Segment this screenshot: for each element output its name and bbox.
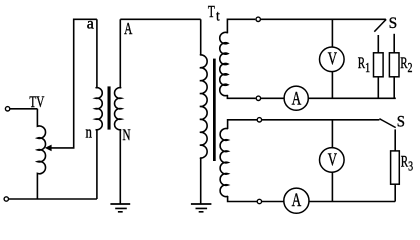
wire (bottom circuit bottom rail, ammeter to R3) [309,201,396,203]
transformer Tt secondary 2 bottom lead [228,196,258,202]
svg-text:N: N [123,126,131,143]
svg-text:S: S [397,113,405,130]
ammeter A (bottom circuit) [284,188,309,213]
resistor R2 [389,53,399,77]
ground (under N) [110,203,130,205]
transformer Tt secondary 1 coil [220,32,228,95]
resistor R1 [374,53,384,77]
wire (R1 bottom lead) [377,77,379,99]
transformer T winding A-N (right) top lead [119,19,121,88]
wire (bottom circuit top rail) [262,119,380,121]
voltmeter V (top circuit) [320,47,345,72]
voltmeter branch wire top (bottom circuit) [331,120,333,149]
transformer Tt secondary 1 bottom lead [227,95,255,98]
terminal (supply input, bottom-left) [4,197,8,201]
voltmeter V (bottom circuit) [320,148,345,173]
svg-text:V: V [328,151,337,170]
ground (under Tt primary) [191,203,212,205]
wire (top circuit top rail) [261,18,386,20]
wire (R2 top stub) [393,34,395,53]
transformer T winding a-n bottom lead [96,129,98,199]
voltmeter branch wire top (top circuit) [331,19,333,47]
wire (R1 top stub) [377,35,379,53]
svg-text:V: V [328,50,337,69]
transformer Tt primary coil [200,55,207,158]
wire (top circuit bottom rail, terminal to ammeter) [261,97,284,99]
wire (R3 top stub) [394,129,396,151]
svg-text:t: t [216,8,220,25]
terminal (top circuit +) [256,17,260,21]
svg-text:A: A [124,20,133,39]
svg-text:T: T [208,3,215,22]
svg-text:n: n [86,124,93,142]
wire (R3 bottom lead) [394,184,396,201]
svg-text:S: S [389,15,398,32]
svg-text:A: A [292,90,302,110]
switch S blade (bottom circuit) [379,119,395,128]
svg-text:A: A [292,191,302,211]
svg-text:TV: TV [29,93,44,110]
transformer Tt secondary 2 coil [220,128,228,196]
transformer T winding A-N bottom lead to ground [119,129,121,203]
resistor R3 [391,151,400,184]
transformer Tt core [213,59,216,161]
terminal (bottom circuit -) [257,199,261,203]
wire (R2 bottom lead) [393,77,395,99]
transformer T winding A-N coil [115,88,122,130]
wire (TV tap to terminal a) [51,19,97,148]
transformer Tt secondary 2 top lead [228,120,258,129]
wire (bottom circuit bottom rail, terminal to ammeter) [262,201,284,203]
transformer T winding a-n coil [96,88,103,130]
ammeter A (top circuit) [284,86,308,110]
terminal (supply input, top-left) [5,107,9,111]
transformer Tt secondary 1 top lead [227,19,255,33]
switch S blade (top circuit) [374,19,386,31]
voltmeter branch wire bottom (top circuit) [331,72,333,99]
wire (top-left terminal to TV) [10,108,38,110]
svg-text:a: a [87,15,94,32]
tap arrow head [45,145,52,152]
wire (top circuit bottom rail, ammeter to R2) [308,97,395,99]
autotransformer TV winding [37,109,45,199]
transformer Tt primary top lead [200,19,202,55]
transformer T winding a-n (left) top lead [96,19,98,88]
voltmeter branch wire bottom (bottom circuit) [331,173,333,202]
wire (A to Tt primary, top rail) [120,18,200,20]
transformer Tt primary bottom lead to ground [200,158,202,204]
terminal (bottom circuit +) [257,118,261,122]
transformer T core [108,86,111,129]
wire (bottom primary rail) [9,198,97,200]
terminal (top circuit -) [256,96,260,100]
